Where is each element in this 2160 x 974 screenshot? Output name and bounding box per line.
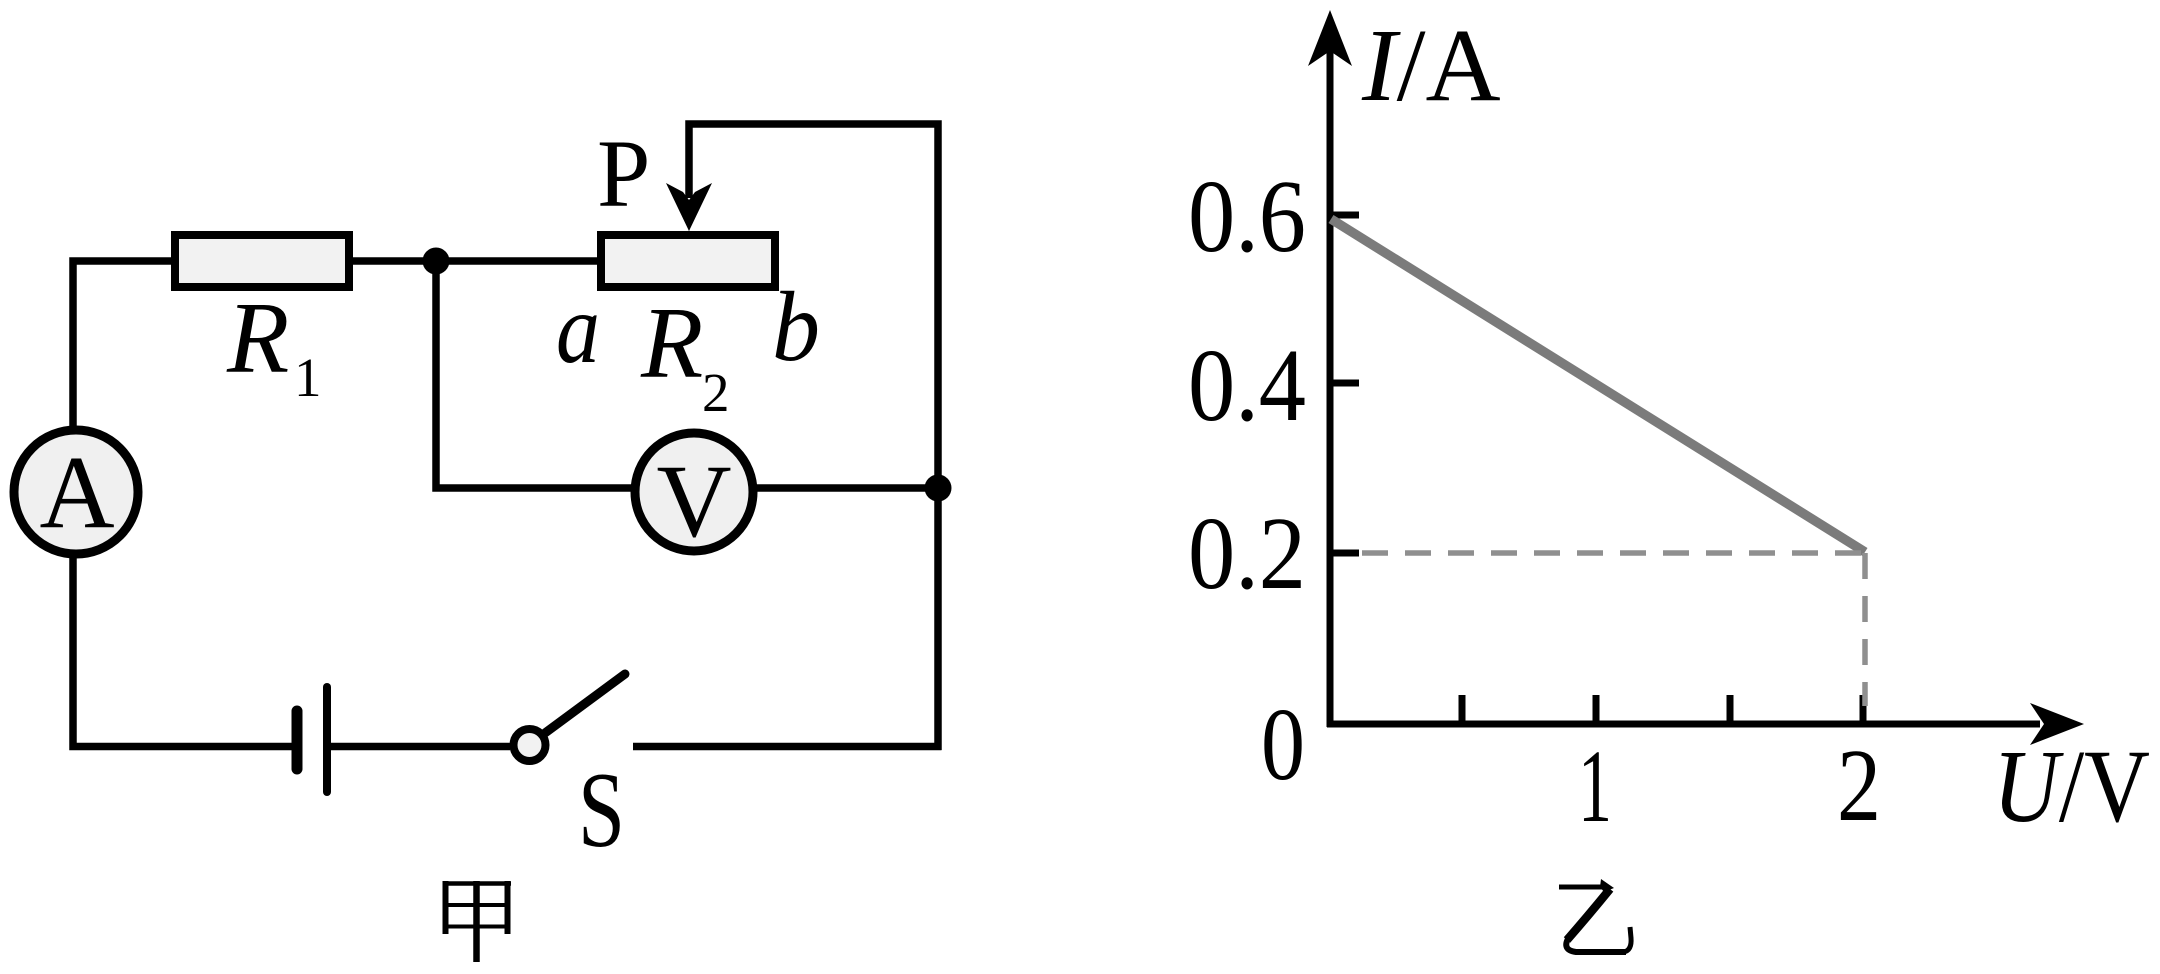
- dashed line U=2: [1862, 553, 1868, 706]
- label jia (Chinese): [443, 881, 511, 962]
- node junction left: [423, 248, 450, 275]
- svg-text:1: 1: [294, 347, 322, 408]
- wire branch node to voltmeter: [436, 261, 636, 488]
- svg-text:A: A: [39, 435, 114, 550]
- svg-text:I/A: I/A: [1361, 8, 1501, 123]
- svg-text:V: V: [656, 444, 731, 559]
- x tick 2: [1860, 695, 1867, 724]
- y tick 0.4: [1330, 380, 1359, 387]
- svg-text:R: R: [226, 282, 289, 395]
- rheostat R2: [601, 235, 775, 287]
- svg-text:2: 2: [702, 362, 730, 423]
- switch S blade: [545, 674, 625, 733]
- svg-text:a: a: [556, 273, 600, 384]
- svg-text:U/V: U/V: [1993, 729, 2150, 844]
- node junction right: [925, 475, 952, 502]
- svg-text:0: 0: [1261, 687, 1305, 802]
- svg-text:S: S: [578, 751, 625, 870]
- wire battery to switch: [331, 743, 510, 751]
- label yi (Chinese): [1559, 879, 1631, 952]
- svg-text:0.2: 0.2: [1188, 496, 1306, 611]
- switch S pivot: [514, 729, 546, 761]
- wire R1 to R2: [353, 257, 601, 265]
- y axis: [1308, 10, 1352, 727]
- svg-text:b: b: [772, 271, 820, 382]
- wire left rail lower + bottom to battery: [73, 558, 292, 747]
- wire voltmeter to right rail: [753, 484, 938, 492]
- resistor R1: [175, 235, 349, 287]
- x tick 1: [1593, 695, 1600, 724]
- ammeter A1: [14, 430, 138, 554]
- svg-text:0.6: 0.6: [1188, 159, 1306, 274]
- svg-text:1: 1: [1578, 729, 1612, 844]
- svg-text:0.4: 0.4: [1188, 328, 1306, 443]
- x tick 1.5: [1727, 695, 1734, 724]
- y tick 0.2: [1330, 550, 1359, 557]
- wire switch to right rail: [633, 743, 942, 751]
- label R2: [640, 287, 730, 423]
- battery cell: short plate: [292, 711, 303, 769]
- I-U line: [1331, 219, 1865, 552]
- battery cell: long plate: [323, 687, 331, 792]
- svg-text:P: P: [597, 120, 650, 227]
- voltmeter U1: [635, 433, 753, 559]
- y tick 0.6: [1330, 212, 1359, 219]
- svg-text:2: 2: [1837, 728, 1881, 843]
- wire top-left: left rail upper + to R1: [73, 261, 175, 426]
- dashed line I=0.2: [1362, 550, 1865, 556]
- wiper P arrowhead: [666, 183, 712, 231]
- wire wiper stem + top rail + right rail: [689, 124, 938, 750]
- x tick 0.5: [1459, 695, 1466, 724]
- x axis: [1327, 703, 2084, 745]
- svg-text:R: R: [640, 287, 703, 400]
- label R1: [226, 282, 322, 408]
